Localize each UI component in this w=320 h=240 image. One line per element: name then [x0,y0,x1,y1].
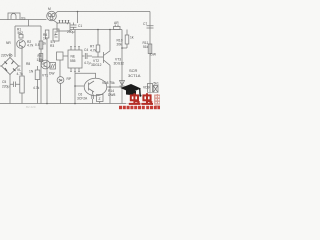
resistor R11 [148,44,152,54]
capacitor C6 [92,92,94,104]
resistor R5 [39,54,43,62]
capacitor C5 [10,82,20,88]
top bus [58,11,151,13]
big transistor circle [84,78,107,96]
wire left lead [0,19,8,21]
box B1 [57,52,64,60]
zener on x41 [39,41,43,49]
resistor R10 [126,30,128,36]
diode AR on bus [114,27,121,30]
red character chong 1 [129,93,141,104]
resistor R1 [19,35,23,39]
resistor box mid-low [37,66,39,70]
resistor R4 [45,30,49,38]
wire above circle [75,73,96,78]
watermark logo: white halo [126,93,160,107]
bottom bus [0,103,150,105]
relay box J [53,29,59,41]
plug XS [8,13,20,20]
resistor VL tall box [21,46,23,76]
wire vertical from top bus [77,12,79,24]
transistor VT2 [92,51,110,66]
vertical branch x41 [40,26,42,104]
graduation cap black [121,84,142,97]
capacitor C1 [71,23,77,30]
mid bus [70,29,122,31]
zener DW hatched [50,63,56,70]
transistor VT1 [41,60,50,69]
paper noise [0,0,160,110]
vertical x122 [121,30,123,104]
faded character right [155,94,160,106]
red bottom text row [119,106,160,109]
resistor R7 [97,30,99,46]
terminal box with pins [57,23,70,31]
left frame wire [15,26,41,57]
motor M [47,11,57,21]
red character chong 2 [141,93,153,104]
component right of bus [153,86,158,93]
junction dots [46,11,123,105]
capacitor C4 [82,53,92,59]
wire motor to top bus [56,12,58,14]
transistor VT1a [17,40,26,49]
right bus [149,12,151,104]
pot RP [59,60,61,77]
wire drop to frame [28,20,30,27]
small labels [1,7,159,101]
SCR symbol [120,81,129,89]
bridge rectifier VC [2,58,19,75]
IC U1 [68,50,82,68]
wire plug to motor [20,19,47,21]
cap C7 right bus [147,26,154,28]
right bus bottom component [148,84,153,93]
wire motor down diagonal [54,20,59,23]
wire circle to SCR [107,86,122,88]
Z box [97,95,104,102]
